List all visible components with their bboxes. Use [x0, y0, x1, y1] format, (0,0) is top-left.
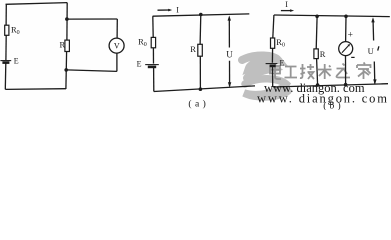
svg-text:V: V — [114, 42, 120, 51]
svg-text:(b): (b) — [323, 100, 344, 110]
svg-text:I: I — [176, 6, 179, 15]
svg-text:U: U — [226, 50, 233, 60]
svg-text:E: E — [137, 59, 142, 68]
svg-text:E: E — [280, 59, 285, 68]
svg-text:R0: R0 — [138, 36, 147, 48]
svg-text:(a): (a) — [188, 98, 209, 109]
svg-text:+: + — [348, 31, 353, 41]
svg-text:R: R — [190, 44, 196, 54]
svg-text:www. diangon. com: www. diangon. com — [257, 91, 387, 105]
svg-text:E: E — [14, 57, 19, 66]
svg-text:U: U — [368, 46, 374, 56]
svg-text:R0: R0 — [276, 37, 285, 49]
svg-text:I: I — [285, 0, 288, 9]
svg-text:R: R — [320, 49, 326, 59]
svg-text:R: R — [60, 39, 66, 49]
svg-text:R0: R0 — [11, 25, 20, 37]
